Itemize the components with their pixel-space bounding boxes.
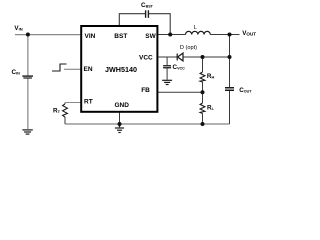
svg-text:JWH5140: JWH5140 bbox=[105, 65, 137, 74]
svg-text:SW: SW bbox=[145, 33, 156, 40]
svg-text:GND: GND bbox=[115, 102, 130, 109]
svg-text:D (opt): D (opt) bbox=[180, 45, 197, 51]
svg-text:RT: RT bbox=[53, 107, 61, 114]
svg-text:COUT: COUT bbox=[239, 87, 252, 94]
svg-text:VCC: VCC bbox=[139, 55, 153, 62]
svg-text:CVCC: CVCC bbox=[173, 64, 186, 71]
svg-text:VIN: VIN bbox=[85, 33, 96, 40]
svg-text:CBST: CBST bbox=[141, 2, 154, 9]
svg-text:RT: RT bbox=[84, 99, 93, 106]
svg-text:VOUT: VOUT bbox=[242, 30, 256, 37]
svg-text:EN: EN bbox=[84, 66, 93, 73]
svg-text:FB: FB bbox=[141, 87, 150, 94]
svg-text:RL: RL bbox=[207, 104, 215, 111]
svg-text:RH: RH bbox=[207, 73, 215, 80]
svg-text:VIN: VIN bbox=[14, 25, 22, 32]
svg-text:CIN: CIN bbox=[12, 69, 21, 76]
svg-text:L: L bbox=[194, 25, 197, 31]
svg-text:BST: BST bbox=[114, 33, 127, 40]
